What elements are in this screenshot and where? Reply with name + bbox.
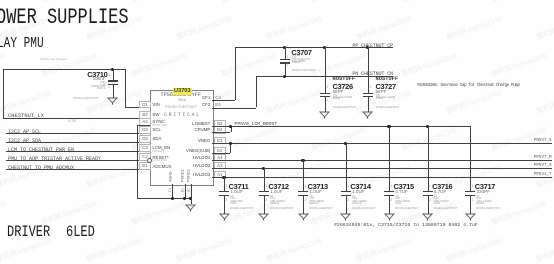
svg-text:PGND1: PGND1 [181, 169, 185, 181]
svg-text:AGND: AGND [168, 171, 172, 182]
svg-text:PGND2: PGND2 [187, 169, 191, 181]
